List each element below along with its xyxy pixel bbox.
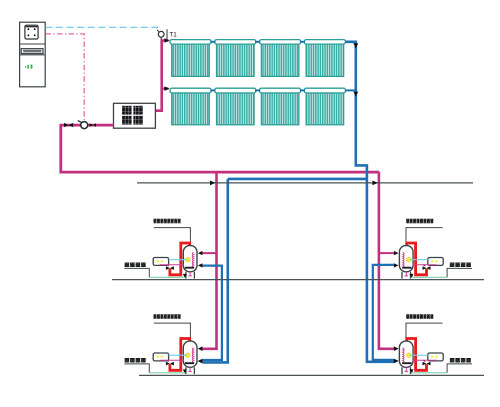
controller cabinet C1 (outline)	[20, 22, 46, 87]
flow arrow return from tank B4	[394, 359, 399, 363]
hot-water outlet line at tank B3	[124, 364, 149, 373]
connection box-to-tank B3 (thin magenta)	[160, 359, 184, 361]
solar collector panel A24 tube bank	[306, 93, 344, 125]
tank B4 support legs	[410, 367, 412, 374]
control box E1 at tank B1	[153, 258, 168, 266]
hot-water outlet line at tank B2	[447, 268, 472, 277]
tank B4 drain stub (magenta)	[405, 367, 407, 371]
tank B2 bottom head line	[402, 267, 411, 269]
flow arrow return from tank B1	[198, 263, 203, 267]
solar collector panel A21 header	[170, 88, 211, 93]
expansion tank box	[114, 103, 156, 128]
leader line for tank B4 label	[406, 323, 443, 341]
pipe: hot branch tank B1 (magenta)	[203, 252, 217, 254]
label: hot water zone at tank B2 (CJK blob)	[450, 263, 455, 268]
flow arrow hot supply into tank B2	[394, 251, 399, 255]
control box E3 at tank B3	[153, 353, 168, 361]
flow arrow at tank B2 drain	[410, 274, 414, 278]
pipe: hot-water circulation loop at tank B3 (red)	[170, 339, 190, 371]
sensor cable: controller to T1 (cyan dashed)	[45, 26, 158, 28]
solar collector panel A13 tube bank	[261, 44, 299, 76]
floor slab line 2	[112, 279, 484, 281]
controller cabinet C1 panel dividers	[20, 43, 46, 45]
tank B1 drain stub (magenta)	[189, 272, 191, 276]
flow arrow on floor line at right trunk	[372, 181, 377, 186]
tank B3 support legs	[185, 367, 187, 374]
label: tank B4 name text (CJK blob)	[406, 314, 409, 319]
flow arrow on downcomer row 1	[353, 43, 358, 48]
pipe: return main header (blue)	[228, 178, 367, 181]
pipe: hot-water circulation loop at tank B2 (red)	[407, 243, 427, 275]
sensor well line at T1	[166, 29, 168, 40]
control cable: controller to pump P1 (pink dash-dot)	[45, 34, 84, 122]
tank B3 bottom head line	[185, 362, 194, 364]
flow arrow on downcomer row 2	[353, 92, 358, 97]
solar collector panel A12 tube bank	[217, 44, 255, 76]
pipe: return branch tank B1 (blue)	[203, 266, 222, 360]
sensor wire at tank B1 (cyan)	[169, 259, 187, 261]
controller display window	[25, 25, 38, 39]
pipe: collector supply riser (magenta)	[155, 41, 168, 111]
flow arrow return from tank B2	[394, 263, 399, 267]
valve V5 on circulation loop	[166, 362, 170, 366]
make-up water line at tank B1 (green)	[149, 276, 185, 278]
storage tank B3 body	[183, 341, 197, 367]
valve V4 on circulation loop	[423, 266, 427, 270]
svg-text:T1: T1	[169, 32, 177, 39]
flow arrow return into tank B4	[394, 359, 399, 363]
label: tank B3 name text (CJK blob)	[154, 314, 157, 319]
heat-exchanger coil in tank B4	[403, 348, 404, 363]
storage tank B1 body	[183, 246, 197, 272]
flow arrow at tank B1 drain	[183, 274, 187, 278]
pipe: hot-water circulation loop at tank B4 (red)	[407, 339, 427, 371]
valve V6 on circulation loop	[423, 362, 427, 366]
pipe: row 2 stub to downcomer (blue)	[345, 89, 355, 91]
solar collector panel A11 tube bank	[172, 44, 210, 76]
tank B1 bottom head line	[185, 267, 194, 269]
label: tank B1 name text (CJK blob)	[154, 219, 157, 224]
hot-water outlet line at tank B4	[447, 364, 472, 373]
pipe: hot supply trunk left (magenta)	[203, 172, 217, 349]
solar collector panel A14 tube bank	[306, 44, 344, 76]
valve V3 on circulation loop	[166, 266, 170, 270]
pipe: hot branch tank B2 (magenta)	[379, 252, 394, 254]
label: hot water zone at tank B4 (CJK blob)	[450, 358, 455, 363]
solar collector panel A14 header	[304, 40, 345, 45]
heat-exchanger coil in tank B2	[403, 252, 404, 267]
circulating pump P1	[81, 122, 88, 129]
flow arrow into collector row 1	[164, 38, 169, 43]
hot-water outlet line at tank B1	[124, 268, 149, 277]
solar collector panel A13 header	[260, 40, 301, 45]
pipe: header connector row 1 gap 3 (blue)	[300, 41, 305, 43]
temperature sensor in tank B3 (yellow)	[185, 353, 190, 358]
sensor wire at tank B2 (cyan)	[410, 259, 428, 261]
solar collector panel A22 tube bank	[217, 93, 255, 125]
temperature sensor T1 (bulb)	[158, 31, 164, 37]
flow arrow into collector row 2	[164, 86, 169, 91]
temperature sensor in tank B4 (yellow)	[406, 353, 411, 358]
pipe: riser stub to collector row 2	[162, 87, 169, 89]
make-up water line at tank B3 (green)	[149, 372, 185, 374]
flow arrow hot supply into tank B4	[394, 346, 399, 350]
controller louver vent	[21, 49, 43, 54]
flow arrow hot supply into tank B3	[198, 346, 203, 350]
tank B2 support legs	[410, 272, 412, 279]
control box E2 at tank B2	[428, 258, 443, 266]
temperature sensor in tank B1 (yellow)	[185, 257, 190, 262]
flow arrow hot supply into tank B1	[198, 251, 203, 255]
pipe: header connector row 2 gap 3 (blue)	[300, 89, 305, 91]
leader line for tank B2 label	[406, 228, 443, 246]
tank B4 bottom head line	[402, 362, 411, 364]
heat-exchanger coil in tank B3	[192, 348, 193, 363]
leader line for tank B1 label	[154, 228, 191, 246]
floor slab line 1	[137, 182, 473, 184]
controller display corner screws	[27, 28, 29, 30]
label: tank B2 name text (CJK blob)	[406, 219, 409, 224]
flow arrow at tank B4 drain	[410, 369, 414, 373]
flow arrow return from tank B3	[198, 359, 203, 363]
tank B3 drain stub (magenta)	[189, 367, 191, 371]
solar collector panel A12 header	[215, 40, 256, 45]
solar collector panel A21 tube bank	[172, 93, 210, 125]
storage tank B4 body	[399, 341, 413, 367]
make-up water line at tank B2 (green)	[411, 276, 447, 278]
label: hot water zone at tank B1 (CJK blob)	[125, 263, 130, 268]
flow arrow hot supply into tank B3	[198, 347, 203, 351]
pipe: header connector row 1 gap 1 (blue)	[210, 41, 215, 43]
heat-exchanger coil in tank B1	[192, 252, 193, 267]
solar collector panel A22 header	[215, 88, 256, 93]
temperature sensor in tank B2 (yellow)	[406, 257, 411, 262]
pipe: header connector row 1 gap 2 (blue)	[255, 41, 260, 43]
pipe: pump suction line and supply main (magenta)	[61, 125, 379, 172]
connection box-to-tank B2 (thin magenta)	[412, 264, 436, 266]
pipe: header connector row 2 gap 1 (blue)	[210, 89, 215, 91]
tank B1 support legs	[185, 272, 187, 279]
pipe: hot supply trunk right (magenta)	[379, 172, 394, 349]
pipe: return branch tank B2 (blue)	[373, 265, 394, 360]
storage tank B2 body	[399, 246, 413, 272]
sensor wire at tank B3 (cyan)	[169, 354, 187, 356]
control box E4 at tank B4	[428, 353, 443, 361]
pipe: hot-water circulation loop at tank B1 (red)	[170, 243, 190, 275]
label: hot water zone at tank B3 (CJK blob)	[125, 358, 130, 363]
solar collector panel A11 header	[170, 40, 211, 45]
pipe: return trunk left (blue)	[203, 179, 228, 363]
valve V2 on pump line	[90, 123, 93, 127]
controller green status indicator	[27, 65, 29, 69]
valve V1 on pump line	[64, 123, 69, 127]
make-up water line at tank B4 (green)	[411, 372, 447, 374]
flow arrow hot supply into tank B4	[394, 347, 399, 351]
tank B2 drain stub (magenta)	[405, 272, 407, 276]
flow arrow on floor line at left trunk	[210, 181, 215, 186]
solar collector panel A24 header	[304, 88, 345, 93]
expansion tank label text (CJK)	[122, 106, 132, 115]
ground line	[139, 374, 484, 376]
flow arrow return into tank B3	[198, 359, 203, 363]
pipe: collector return downcomer and right return trunk (blue)	[345, 42, 394, 362]
sensor wire at tank B4 (cyan)	[410, 354, 428, 356]
flow arrow at tank B3 drain	[183, 369, 187, 373]
pipe: header connector row 2 gap 2 (blue)	[255, 89, 260, 91]
solar collector panel A23 header	[260, 88, 301, 93]
connection box-to-tank B4 (thin magenta)	[412, 359, 436, 361]
connection box-to-tank B1 (thin magenta)	[160, 264, 184, 266]
leader line for tank B3 label	[154, 323, 191, 341]
solar collector panel A23 tube bank	[261, 93, 299, 125]
